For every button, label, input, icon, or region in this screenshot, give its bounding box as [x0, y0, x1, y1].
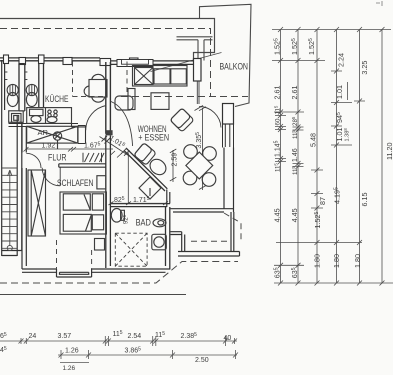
svg-text:1.01: 1.01: [335, 85, 344, 99]
svg-text:2.54: 2.54: [128, 333, 142, 340]
svg-text:2.61: 2.61: [273, 86, 282, 100]
svg-text:4.45: 4.45: [290, 208, 299, 222]
svg-text:1.46: 1.46: [292, 148, 299, 162]
svg-text:2.61: 2.61: [290, 86, 299, 100]
svg-text:KÜCHE: KÜCHE: [45, 94, 69, 104]
svg-text:BALKON: BALKON: [220, 62, 249, 72]
svg-text:5.48: 5.48: [309, 133, 318, 147]
svg-text:1.80: 1.80: [332, 254, 341, 268]
svg-text:40: 40: [224, 335, 232, 342]
svg-text:4.45: 4.45: [273, 208, 282, 222]
svg-text:2.50: 2.50: [195, 357, 209, 364]
svg-text:BAD: BAD: [136, 218, 152, 228]
svg-text:FLUR: FLUR: [48, 153, 67, 164]
svg-text:3.25: 3.25: [360, 61, 369, 75]
svg-text:3.57: 3.57: [58, 333, 72, 340]
svg-text:11.20: 11.20: [385, 143, 393, 160]
svg-text:87: 87: [318, 197, 327, 205]
svg-text:1.92: 1.92: [42, 143, 56, 150]
svg-text:24: 24: [29, 333, 37, 340]
svg-text:1.26: 1.26: [65, 348, 79, 355]
svg-text:1.80: 1.80: [312, 254, 321, 268]
svg-text:1.80: 1.80: [353, 254, 362, 268]
svg-text:SCHLAFEN: SCHLAFEN: [57, 178, 94, 188]
svg-text:+ ESSEN: + ESSEN: [138, 132, 169, 142]
svg-text:1.26: 1.26: [63, 365, 76, 372]
svg-text:AR: AR: [38, 128, 49, 137]
svg-text:60: 60: [275, 118, 282, 125]
svg-text:2.24: 2.24: [337, 53, 346, 67]
svg-text:6.15: 6.15: [360, 193, 369, 207]
svg-text:2.59: 2.59: [172, 153, 179, 167]
